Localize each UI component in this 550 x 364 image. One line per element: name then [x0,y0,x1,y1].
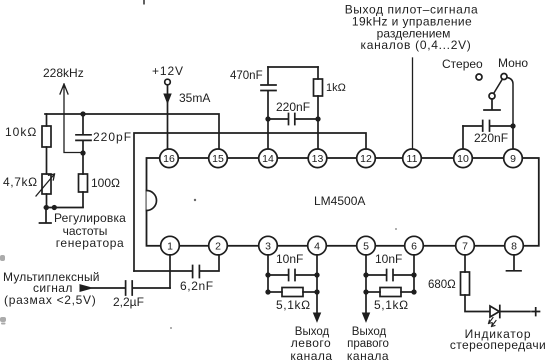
svg-text:35mA: 35mA [179,91,210,105]
pin 2 [209,236,228,255]
svg-text:левого: левого [291,336,331,350]
svg-text:16: 16 [163,153,175,165]
svg-text:228kHz: 228kHz [43,66,84,80]
output arrow left channel [314,313,321,322]
pin 12 [357,149,376,168]
svg-text:Регулировка: Регулировка [54,211,126,225]
svg-text:канала: канала [347,349,389,363]
svg-text:Моно: Моно [498,56,528,70]
svg-text:100Ω: 100Ω [91,176,120,190]
scan speckles [0,199,397,329]
svg-text:7: 7 [462,241,468,253]
pin 14 [259,149,278,168]
svg-text:10kΩ: 10kΩ [5,125,37,139]
svg-text:Стерео: Стерео [442,57,483,71]
resistor R 100 [82,153,84,174]
svg-text:220nF: 220nF [276,100,310,114]
svg-text:1kΩ: 1kΩ [326,82,346,94]
wire pilot output to pin 11 [412,58,414,149]
svg-text:(размах <2,5V): (размах <2,5V) [4,293,96,307]
svg-text:470nF: 470nF [230,70,263,82]
resistor R 10k [46,114,48,126]
potentiometer 4,7k [42,174,51,194]
svg-text:4: 4 [314,241,320,253]
pin 8 [505,236,524,255]
capacitor C 220nF switch [463,121,513,132]
capacitor C 470nF [268,66,318,68]
svg-text:10nF: 10nF [375,252,402,266]
svg-text:5,1kΩ: 5,1kΩ [276,298,311,312]
pin 9 [504,149,523,168]
wire bottom of oscillator [45,207,84,209]
capacitor C 220nF top [268,114,318,125]
svg-text:стереопередачи: стереопередачи [450,338,546,352]
node dots oscillator bottom [45,206,49,210]
pin 13 [308,149,327,168]
pin circles [160,149,524,255]
resistor 680 [464,254,466,272]
svg-text:8: 8 [511,241,517,253]
LED stereo indicator [490,306,499,317]
svg-text:14: 14 [262,153,274,165]
svg-text:2,2µF: 2,2µF [113,295,144,309]
svg-text:каналов (0,4...2V): каналов (0,4...2V) [361,38,472,52]
svg-text:3: 3 [265,241,271,253]
svg-text:13: 13 [312,153,324,165]
svg-text:680Ω: 680Ω [428,279,456,291]
capacitor C 220pF [81,112,85,116]
svg-text:12: 12 [360,153,372,165]
pin 1 [161,236,180,255]
svg-text:+12V: +12V [152,64,184,78]
wire oscillator top rail to pin 15 [45,114,219,149]
ground pin 8 [507,254,522,271]
pin 7 [456,236,475,255]
svg-text:220nF: 220nF [474,131,508,145]
pin 16 [160,149,179,168]
resistor R 1k [317,67,319,79]
capacitor C 2,2uF [126,281,170,295]
svg-text:Выход: Выход [352,326,387,338]
switch stereo/mono [476,74,482,80]
multiplex input arrow [80,285,92,292]
stray mark top [143,0,145,5]
svg-text:6: 6 [411,241,417,253]
svg-text:генератора: генератора [56,236,125,250]
IC notch [147,191,157,211]
pins 3-4 network: capacitor 10nF [268,254,317,313]
pin 4 [308,236,327,255]
svg-text:220pF: 220pF [93,130,132,144]
svg-text:15: 15 [212,153,224,165]
svg-text:6,2nF: 6,2nF [180,279,214,293]
svg-text:10nF: 10nF [276,252,303,266]
IC body U1 LM4500A [147,158,539,246]
svg-text:1: 1 [167,241,173,253]
ground switch [484,99,500,110]
pin 15 [209,149,228,168]
pin 5 [357,236,376,255]
svg-text:9: 9 [510,153,516,165]
pin 11 [403,149,422,168]
wire pin 1 drop [169,254,171,288]
ground oscillator [40,208,52,224]
capacitor C 6,2nF [134,254,219,278]
+12V supply terminal [165,79,171,85]
svg-text:LM4500A: LM4500A [314,194,365,208]
228kHz test point arrow [60,84,83,153]
pin numbers [163,153,517,253]
output arrow right channel [363,313,370,322]
svg-text:11: 11 [407,153,418,165]
svg-text:10: 10 [457,153,469,165]
svg-text:2: 2 [215,241,221,253]
svg-text:канала: канала [290,349,332,363]
svg-text:5: 5 [363,241,369,253]
resistor 5,1k left [268,291,282,293]
pin 3 [259,236,278,255]
pins 5-6 network: capacitor 10nF [366,254,414,313]
resistor 5,1k right [366,291,380,293]
svg-text:4,7kΩ: 4,7kΩ [3,175,38,189]
svg-text:5,1kΩ: 5,1kΩ [374,298,409,312]
pin 6 [405,236,424,255]
pin 10 [454,149,473,168]
wire y133 from pin 12 to 6.2nF branch [134,133,366,271]
